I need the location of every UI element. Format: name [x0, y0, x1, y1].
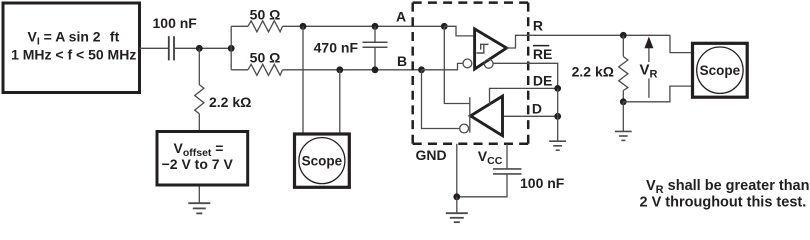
- capacitor 470 nF (across A-B): [314, 26, 388, 70]
- note text: [640, 178, 810, 211]
- node supply ground junction: [453, 193, 460, 200]
- wire load to ground: [622, 102, 624, 131]
- receiver triangle U1: [475, 29, 507, 69]
- svg-text:2.2 kΩ: 2.2 kΩ: [209, 94, 251, 110]
- wire D input: [504, 115, 558, 117]
- wire VCC pin down: [506, 144, 508, 169]
- svg-text:100 nF: 100 nF: [520, 175, 565, 191]
- node junction after 100nF: [196, 45, 203, 52]
- wire DE enable: [490, 88, 558, 104]
- svg-text:DE: DE: [533, 72, 552, 88]
- node scope tap B: [336, 66, 343, 73]
- resistor 50 Ohm (top): [248, 6, 283, 32]
- svg-text:2.2 kΩ: 2.2 kΩ: [572, 64, 614, 80]
- Voffset source box: [157, 132, 248, 186]
- svg-text:VR shall be greater than: VR shall be greater than: [646, 178, 809, 196]
- svg-text:Scope: Scope: [302, 153, 343, 168]
- node B junction inside IC: [418, 66, 425, 73]
- ground tie-down: [549, 141, 566, 150]
- wire top row A: [231, 25, 248, 27]
- svg-text:D: D: [532, 101, 542, 117]
- node 470nF bottom: [372, 66, 379, 73]
- svg-text:−2 V to 7 V: −2 V to 7 V: [162, 156, 234, 172]
- svg-text:50 Ω: 50 Ω: [250, 6, 281, 22]
- pin label RE (overline): [533, 46, 552, 62]
- wire bottom row B: [231, 69, 248, 71]
- capacitor 100 nF (VCC bypass): [493, 169, 565, 191]
- svg-text:GND: GND: [416, 147, 447, 163]
- node D junction: [554, 113, 561, 120]
- wire cap to node: [174, 47, 231, 49]
- wire scope tap B down: [339, 70, 341, 133]
- resistor 50 Ohm (bottom): [248, 49, 283, 75]
- wire A down to driver bar: [444, 26, 470, 103]
- ground supply: [446, 213, 468, 222]
- wire scope tap A down: [302, 26, 304, 133]
- driver output bar: [469, 97, 471, 132]
- svg-text:1 MHz < f < 50 MHz: 1 MHz < f < 50 MHz: [11, 47, 136, 63]
- wire load bottom to scope: [623, 86, 691, 102]
- resistor 2.2 kOhm (bias): [195, 48, 252, 130]
- node R load top: [620, 32, 627, 39]
- wire VCC cap to ground rail: [457, 174, 507, 197]
- svg-text:A: A: [396, 8, 406, 24]
- resistor 2.2 kOhm (load): [572, 35, 628, 102]
- wire RE to tie-down: [493, 63, 558, 88]
- generator source box VI: [3, 3, 140, 93]
- wire split vertical: [230, 26, 232, 70]
- node R load bottom: [620, 98, 627, 105]
- wire junction to ground: [456, 197, 458, 213]
- svg-text:50 Ω: 50 Ω: [250, 49, 281, 65]
- node scope tap A: [300, 23, 307, 30]
- svg-text:100 nF: 100 nF: [153, 15, 198, 31]
- wire R to scope (top): [670, 35, 691, 52]
- hysteresis symbol: [476, 44, 488, 53]
- wire Voffset to ground: [198, 187, 200, 204]
- capacitor 100 nF (series): [153, 15, 198, 60]
- receiver enable bubble RE: [484, 59, 493, 68]
- svg-text:B: B: [397, 53, 407, 69]
- node DE junction: [554, 85, 561, 92]
- node A junction inside IC: [441, 23, 448, 30]
- ground load: [615, 131, 632, 140]
- node split junction: [228, 45, 235, 52]
- wire tie-down to ground: [557, 88, 559, 141]
- wire A to receiver input: [444, 26, 473, 36]
- svg-text:Scope: Scope: [700, 63, 741, 78]
- scope box (left): [295, 134, 350, 187]
- receiver inverting input bubble: [463, 59, 472, 68]
- svg-text:470 nF: 470 nF: [314, 40, 359, 56]
- wire source to 100nF cap: [140, 47, 169, 49]
- wire B row to IC: [283, 69, 422, 71]
- svg-text:2 V throughout this test.: 2 V throughout this test.: [640, 195, 807, 211]
- wire receiver output R: [506, 35, 670, 48]
- svg-text:RE: RE: [533, 46, 552, 62]
- scope box (right): [693, 43, 748, 97]
- node 470nF top: [372, 23, 379, 30]
- driver triangle: [471, 96, 503, 136]
- wire GND pin down: [456, 144, 458, 197]
- svg-text:R: R: [533, 18, 543, 34]
- wire B to receiver inverting bubble: [422, 63, 463, 69]
- wire B down to driver bubble: [422, 70, 460, 129]
- ground below Voffset: [188, 203, 210, 213]
- wire A row to IC: [283, 25, 445, 27]
- VR measurement arrow: [639, 37, 658, 98]
- IC boundary (dashed): [413, 3, 529, 144]
- driver inverting output bubble: [460, 124, 469, 133]
